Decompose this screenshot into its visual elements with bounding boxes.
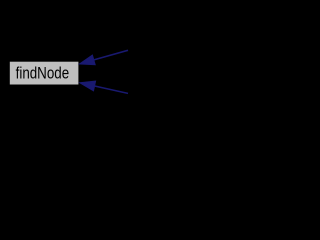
svg-text:findNode: findNode xyxy=(16,65,70,83)
edge: bottom caller arrow xyxy=(80,81,128,93)
node findNode xyxy=(10,62,79,85)
edge: top caller arrow xyxy=(79,50,128,64)
